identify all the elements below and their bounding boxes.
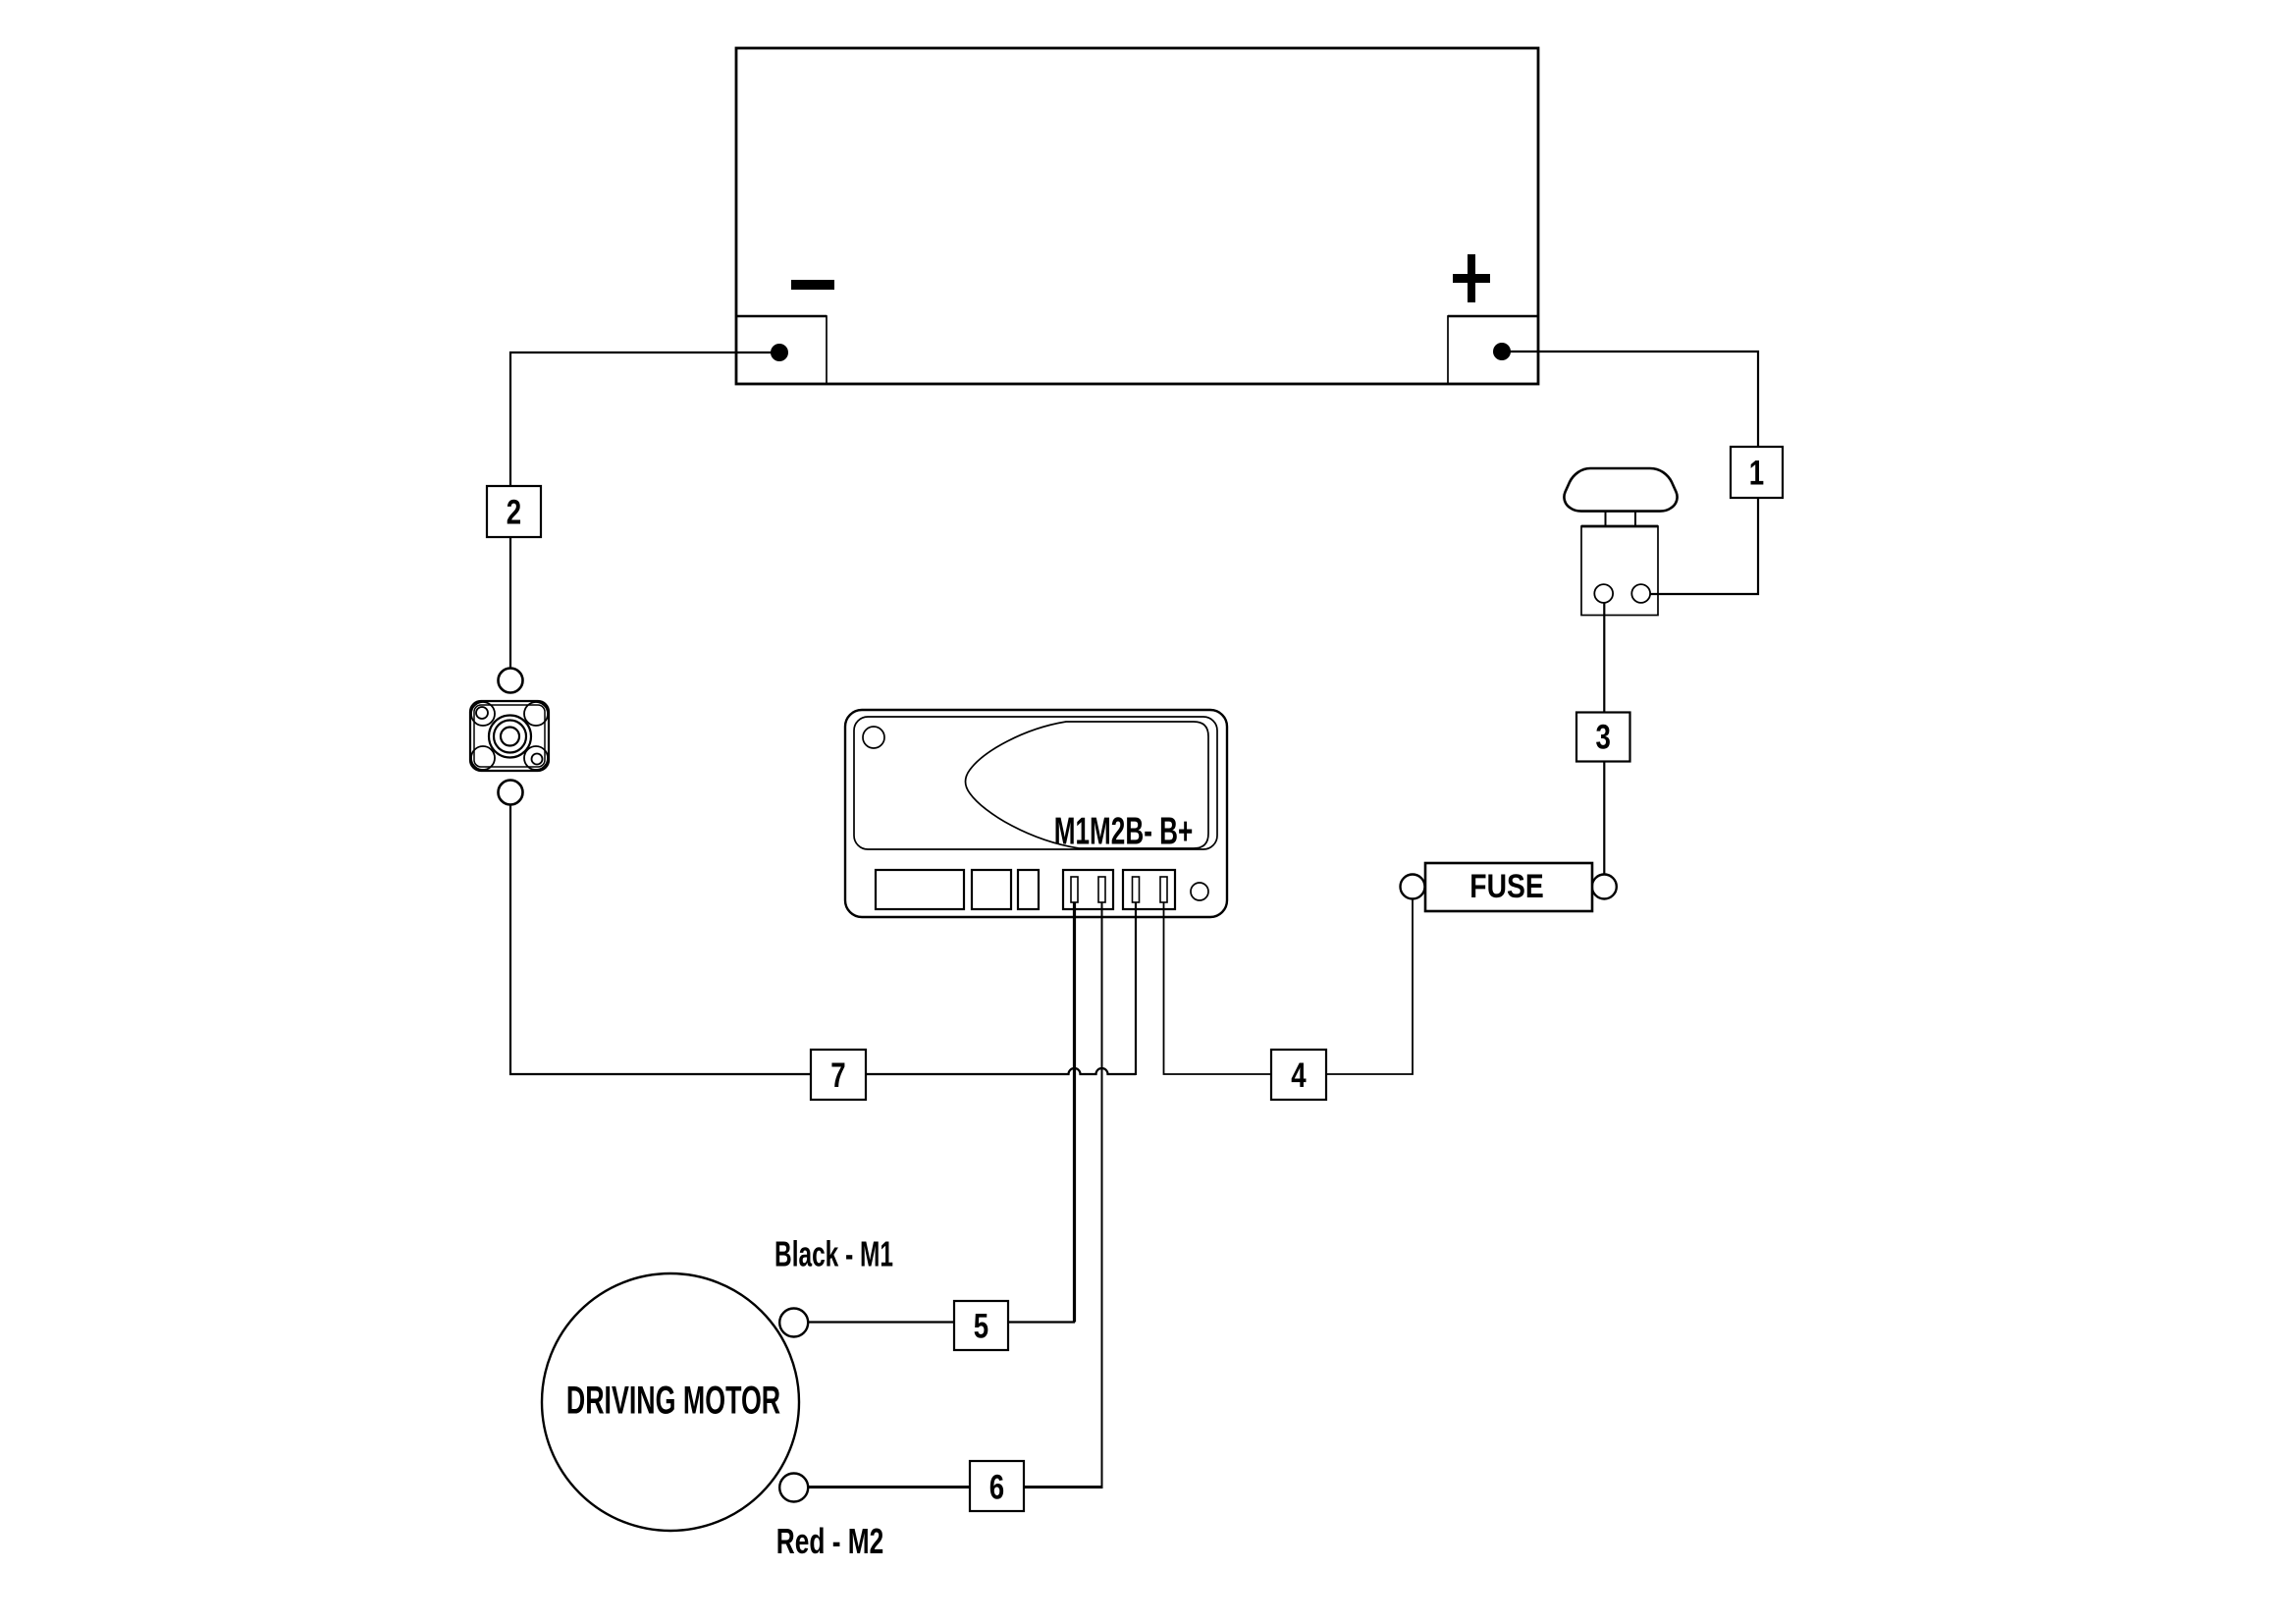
connector corner circle bottom-left <box>471 746 495 770</box>
svg-text:FUSE: FUSE <box>1469 866 1543 904</box>
controller socket 1 <box>876 870 964 909</box>
svg-text:2: 2 <box>507 492 521 531</box>
wire M2 controller slot to motor <box>1101 901 1103 1488</box>
fuse left pin <box>1401 875 1425 899</box>
svg-text:4: 4 <box>1291 1056 1307 1095</box>
wire item 2 to connector <box>509 536 511 669</box>
battery negative terminal dot <box>771 344 788 361</box>
wire connector to node B- (wire 7 run) <box>510 804 1136 1074</box>
wire M1 controller slot to motor <box>1073 901 1076 1323</box>
label box 5 <box>954 1301 1008 1350</box>
battery positive terminal dot <box>1493 343 1511 360</box>
battery plus symbol <box>1453 274 1490 283</box>
connector corner circle bottom-right <box>524 746 548 770</box>
svg-text:DRIVING MOTOR: DRIVING MOTOR <box>566 1379 780 1423</box>
switch stem left <box>1605 512 1607 526</box>
controller socket B- B+ <box>1123 870 1175 909</box>
svg-text:5: 5 <box>974 1306 988 1345</box>
motor terminal M1 <box>779 1309 808 1337</box>
wire B+ from controller slot to fuse <box>1164 897 1414 1074</box>
controller mounting hole top-left <box>863 727 884 748</box>
slot M1 <box>1071 877 1078 902</box>
connector corner circle top-left <box>471 702 495 726</box>
svg-text:Black - M1: Black - M1 <box>774 1234 893 1274</box>
controller inner panel <box>854 717 1217 849</box>
svg-text:6: 6 <box>989 1467 1004 1506</box>
label box 7 <box>811 1050 866 1100</box>
switch stem right <box>1634 512 1636 526</box>
battery positive terminal box <box>1448 316 1538 384</box>
fuse body <box>1425 863 1592 911</box>
battery <box>736 48 1538 384</box>
wire switch to item 1 to battery positive <box>1502 352 1758 594</box>
connector body <box>470 701 549 771</box>
switch knob cap <box>1564 468 1677 512</box>
controller leaf outline <box>966 722 1209 848</box>
controller socket M1 M2 <box>1063 870 1113 909</box>
svg-text:M1M2B- B+: M1M2B- B+ <box>1054 810 1194 852</box>
connector corner circle top-right <box>524 702 548 726</box>
label box 6 <box>970 1461 1024 1511</box>
battery negative terminal box <box>736 316 827 384</box>
switch body <box>1581 526 1658 616</box>
connector top ring terminal <box>499 669 523 693</box>
slot B+ <box>1160 877 1167 902</box>
wire B- from controller slot <box>1135 901 1137 1075</box>
battery minus symbol <box>791 280 834 290</box>
label box 2 <box>487 486 541 537</box>
motor terminal M2 <box>779 1474 808 1502</box>
slot M2 <box>1098 877 1105 902</box>
controller socket 2 <box>972 870 1011 909</box>
svg-text:Red - M2: Red - M2 <box>776 1521 883 1561</box>
slot B- <box>1133 877 1140 902</box>
svg-text:3: 3 <box>1596 717 1611 756</box>
controller mounting hole bottom-right <box>1191 883 1208 900</box>
label box 4 <box>1271 1050 1326 1100</box>
label box 1 <box>1731 447 1783 498</box>
driving motor <box>542 1273 799 1531</box>
connector bottom ring terminal <box>499 781 523 805</box>
switch pin right <box>1631 584 1650 603</box>
svg-text:7: 7 <box>830 1056 845 1095</box>
switch pin left <box>1594 584 1613 603</box>
wire fuse to item 3 to switch <box>1603 603 1605 875</box>
connector center rings <box>489 716 531 758</box>
wire battery negative to item 2 <box>510 352 779 487</box>
controller socket 3 <box>1018 870 1039 909</box>
fuse right pin <box>1592 875 1617 899</box>
label box 3 <box>1576 713 1630 762</box>
svg-text:1: 1 <box>1749 453 1764 492</box>
controller outer case <box>845 710 1227 917</box>
